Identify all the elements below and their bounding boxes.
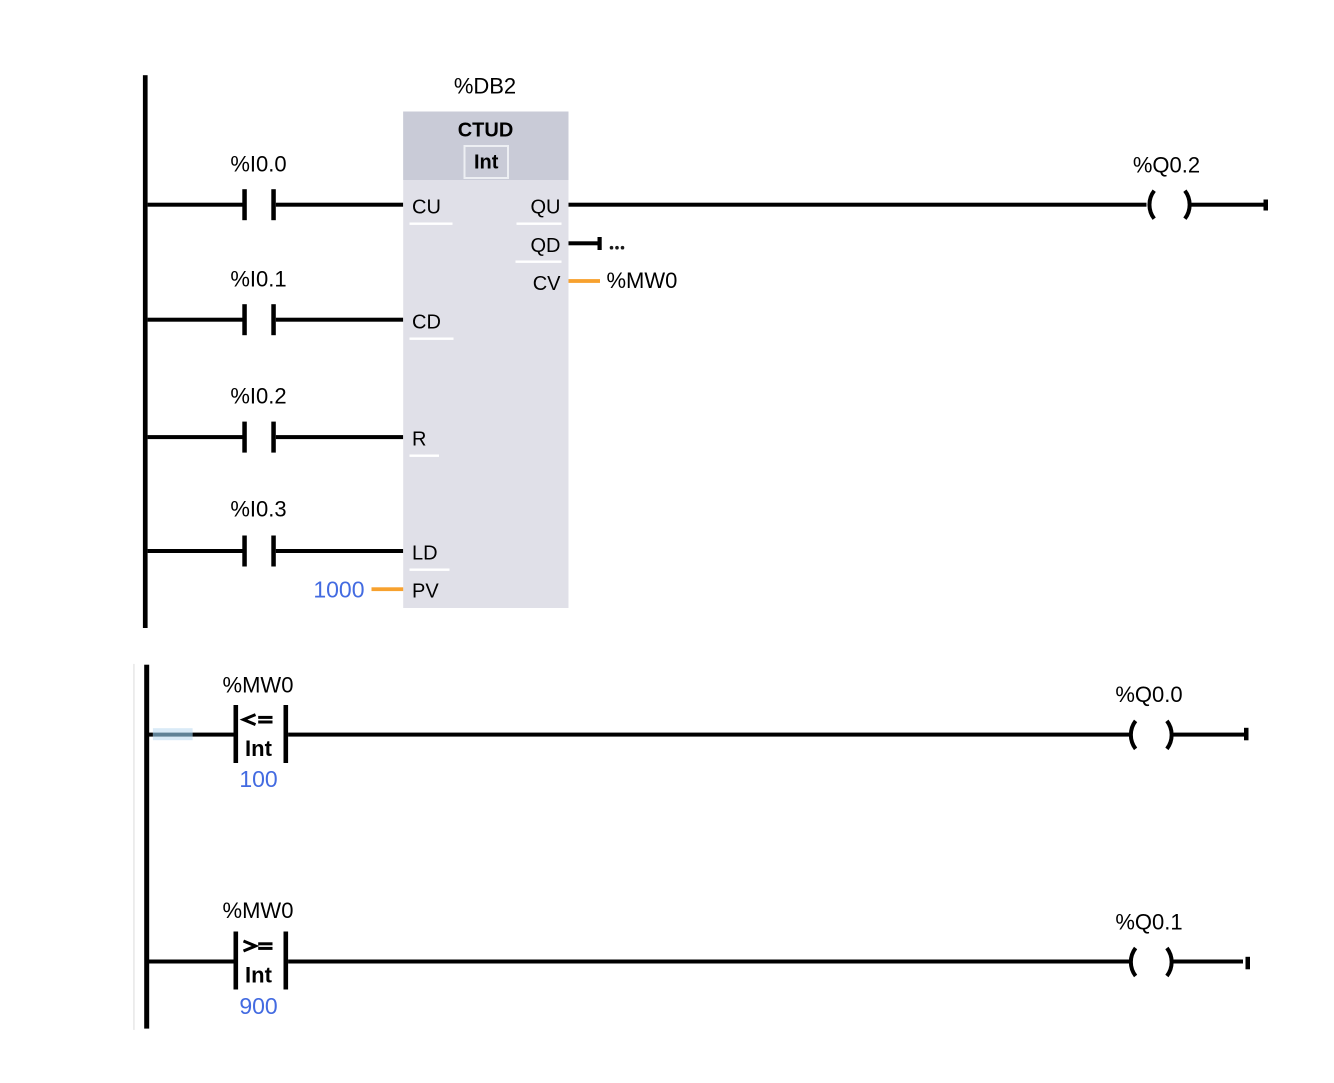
pin QD underline	[516, 261, 562, 263]
wire: contact %I0.2 to R pin	[276, 435, 403, 439]
svg-text:CTUD: CTUD	[458, 120, 514, 142]
wire (orange): CV pin to %MW0	[569, 279, 601, 283]
svg-text:LD: LD	[412, 543, 438, 565]
contact %I0.1 (NO contact)	[242, 304, 275, 335]
svg-text:QU: QU	[531, 197, 561, 219]
contact %I0.2 (NO contact)	[242, 422, 275, 453]
svg-text:1000: 1000	[313, 577, 364, 603]
wire stub: rail to selection (network 2)	[148, 733, 154, 737]
svg-text:PV: PV	[412, 581, 439, 603]
svg-text:%Q0.1: %Q0.1	[1115, 910, 1182, 935]
coil %Q0.2	[1149, 191, 1189, 219]
selected wire segment highlight	[153, 728, 193, 740]
pin CU underline	[410, 223, 453, 225]
right end bar (network 2)	[1244, 728, 1249, 741]
wire: selection to comparator (network 2)	[193, 733, 234, 737]
wire: coil %Q0.0 to right end	[1174, 733, 1247, 737]
wire: contact %I0.0 to CU pin	[276, 203, 403, 207]
svg-text:%DB2: %DB2	[454, 74, 516, 99]
pin R underline	[410, 455, 440, 457]
wire: rail to contact %I0.1	[148, 318, 244, 322]
svg-text:CU: CU	[412, 197, 441, 219]
svg-text:Int: Int	[245, 736, 273, 761]
svg-text:%I0.0: %I0.0	[230, 152, 286, 177]
wire stub: QD pin	[569, 241, 598, 245]
svg-text:%MW0: %MW0	[607, 268, 678, 293]
svg-text:%Q0.0: %Q0.0	[1115, 682, 1182, 707]
svg-text:CV: CV	[533, 273, 561, 295]
QD open end bar	[598, 237, 602, 250]
comparator contact >= Int (network 3)	[234, 932, 289, 990]
coil %Q0.0	[1131, 721, 1172, 749]
wire: QU pin to coil %Q0.2	[569, 203, 1147, 207]
QD unconnected placeholder ...	[610, 246, 625, 250]
counter block CTUD body	[403, 112, 568, 609]
svg-text:QD: QD	[531, 235, 561, 257]
svg-text:%I0.1: %I0.1	[230, 267, 286, 292]
wire (orange) value 1000 to PV pin	[372, 587, 404, 591]
pin CD underline	[410, 338, 454, 340]
svg-text:CD: CD	[412, 312, 441, 334]
svg-text:%I0.2: %I0.2	[230, 384, 286, 409]
wire: rail to contact %I0.2	[148, 435, 244, 439]
right end bar (network 1)	[1264, 200, 1269, 211]
wire: coil %Q0.2 to right end	[1192, 203, 1267, 207]
network separator faint line (networks 2-3 left margin)	[133, 664, 135, 1030]
power rail (network 1)	[143, 75, 148, 628]
wire: comparator to coil %Q0.0	[288, 733, 1130, 737]
svg-text:%MW0: %MW0	[223, 898, 294, 923]
svg-text:Int: Int	[474, 152, 499, 174]
selected wire segment	[153, 733, 193, 737]
contact %I0.3 (NO contact)	[242, 536, 275, 567]
svg-text:900: 900	[239, 993, 277, 1019]
power rail (networks 2-3)	[144, 665, 149, 1029]
right end bar (network 3)	[1246, 957, 1251, 970]
wire: rail to comparator (network 3)	[148, 960, 234, 964]
wire: contact %I0.3 to LD pin	[276, 549, 403, 553]
wire: coil %Q0.1 to right end	[1174, 960, 1244, 964]
svg-text:Int: Int	[245, 963, 273, 988]
svg-text:%MW0: %MW0	[223, 673, 294, 698]
pin LD underline	[410, 569, 450, 571]
coil %Q0.1	[1131, 948, 1172, 976]
pin QU underline	[517, 223, 562, 225]
svg-text:R: R	[412, 429, 426, 451]
svg-text:100: 100	[239, 766, 277, 792]
svg-text:%I0.3: %I0.3	[230, 497, 286, 522]
svg-text:%Q0.2: %Q0.2	[1133, 153, 1200, 178]
wire: rail to contact %I0.0	[148, 203, 244, 207]
wire: contact %I0.1 to CD pin	[276, 318, 403, 322]
counter block type box Int	[465, 146, 509, 178]
contact %I0.0 (NO contact)	[242, 189, 275, 220]
comparator contact <= Int (network 2)	[234, 705, 289, 763]
counter block CTUD header	[403, 112, 568, 181]
wire: rail to contact %I0.3	[148, 549, 244, 553]
wire: comparator to coil %Q0.1	[288, 960, 1130, 964]
